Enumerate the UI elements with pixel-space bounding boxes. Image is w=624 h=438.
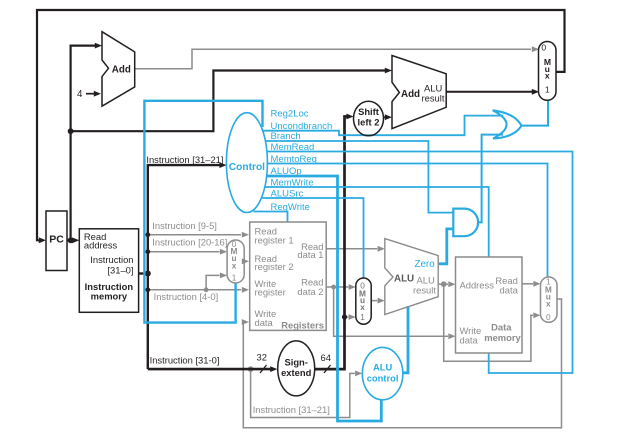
svg-text:result: result: [422, 92, 445, 103]
svg-text:32: 32: [257, 351, 267, 362]
svg-text:1: 1: [360, 312, 365, 322]
svg-text:Branch: Branch: [271, 131, 301, 142]
svg-text:memory: memory: [484, 332, 521, 343]
svg-text:4: 4: [77, 89, 83, 100]
svg-text:MemRead: MemRead: [271, 142, 315, 153]
svg-text:extend: extend: [281, 367, 311, 378]
svg-text:0: 0: [546, 312, 551, 322]
svg-text:ALU: ALU: [373, 361, 392, 372]
svg-text:result: result: [413, 284, 436, 295]
svg-text:control: control: [367, 372, 399, 383]
svg-text:data: data: [460, 335, 479, 346]
svg-text:Instruction [20-16]: Instruction [20-16]: [152, 236, 227, 247]
svg-text:ALU: ALU: [394, 274, 414, 285]
svg-text:Instruction [31–21]: Instruction [31–21]: [146, 154, 223, 165]
svg-text:memory: memory: [91, 291, 128, 302]
svg-text:register 2: register 2: [255, 261, 294, 272]
svg-text:Reg2Loc: Reg2Loc: [271, 108, 309, 119]
svg-text:x: x: [546, 299, 551, 309]
svg-text:x: x: [545, 71, 550, 81]
svg-text:Add: Add: [112, 64, 131, 75]
svg-text:ALUOp: ALUOp: [271, 166, 302, 177]
svg-text:Zero: Zero: [415, 259, 436, 270]
svg-text:0: 0: [541, 43, 546, 53]
svg-text:64: 64: [321, 352, 331, 363]
svg-text:1: 1: [545, 84, 550, 94]
svg-text:Instruction [9-5]: Instruction [9-5]: [152, 220, 217, 231]
svg-text:Registers: Registers: [281, 320, 324, 331]
svg-text:left 2: left 2: [358, 116, 380, 127]
svg-text:Shift: Shift: [358, 106, 379, 117]
svg-text:Uncondbranch: Uncondbranch: [271, 121, 333, 132]
svg-text:RegWrite: RegWrite: [271, 202, 310, 213]
svg-text:data 1: data 1: [297, 249, 323, 260]
svg-text:x: x: [360, 302, 365, 312]
svg-text:Instruction [31-0]: Instruction [31-0]: [150, 354, 220, 365]
svg-text:PC: PC: [49, 234, 64, 246]
svg-text:Instruction [4-0]: Instruction [4-0]: [154, 291, 219, 302]
svg-text:x: x: [232, 261, 237, 271]
svg-text:data: data: [255, 317, 274, 328]
svg-text:MemWrite: MemWrite: [271, 177, 314, 188]
svg-text:MemtoReg: MemtoReg: [271, 154, 317, 165]
svg-text:Control: Control: [229, 162, 265, 173]
svg-text:ALUSrc: ALUSrc: [271, 188, 304, 199]
svg-text:register 1: register 1: [255, 235, 294, 246]
svg-text:[31–0]: [31–0]: [107, 264, 133, 275]
svg-text:address: address: [84, 240, 118, 251]
svg-text:Instruction [31–21]: Instruction [31–21]: [253, 404, 330, 415]
svg-text:Add: Add: [401, 89, 420, 100]
svg-text:Address: Address: [460, 279, 495, 290]
svg-text:register: register: [255, 286, 286, 297]
svg-text:1: 1: [232, 272, 237, 282]
svg-text:data: data: [500, 285, 519, 296]
svg-text:Sign-: Sign-: [284, 356, 307, 367]
svg-text:data 2: data 2: [297, 286, 323, 297]
